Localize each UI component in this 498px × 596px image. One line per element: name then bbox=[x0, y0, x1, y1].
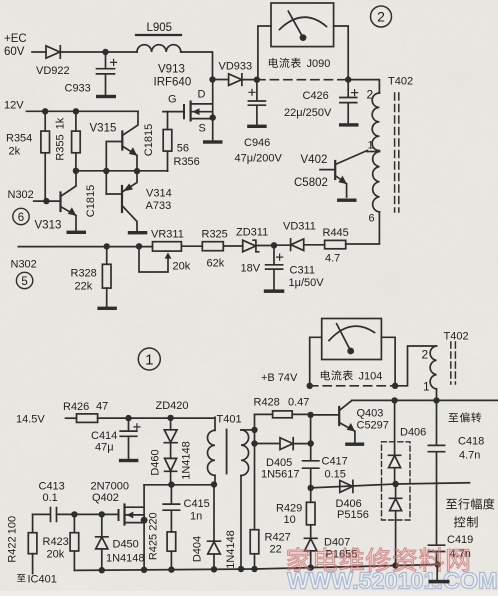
resistor R426 bbox=[77, 414, 98, 423]
svg-text:V314: V314 bbox=[146, 188, 172, 200]
svg-text:0.47: 0.47 bbox=[288, 397, 309, 409]
svg-text:47μ: 47μ bbox=[95, 442, 114, 454]
svg-text:IC401: IC401 bbox=[28, 574, 57, 586]
diode D406b bbox=[390, 484, 402, 566]
node +EC input bbox=[32, 51, 46, 53]
svg-text:D407: D407 bbox=[324, 537, 350, 549]
resistor R354 bbox=[41, 131, 50, 153]
svg-text:V315: V315 bbox=[90, 123, 117, 135]
svg-text:1N5617: 1N5617 bbox=[261, 469, 300, 481]
svg-text:1n: 1n bbox=[190, 511, 202, 523]
transformer T401 core bbox=[226, 430, 228, 474]
diode D404 bbox=[208, 485, 221, 570]
svg-text:1k: 1k bbox=[55, 117, 67, 129]
svg-text:C426: C426 bbox=[303, 90, 329, 102]
wire pin6 bbox=[346, 212, 380, 244]
potentiometer VR311 bbox=[182, 245, 203, 247]
svg-text:T402: T402 bbox=[388, 76, 413, 88]
circled 2 bbox=[371, 6, 392, 27]
dual diode D406 dashed box bbox=[382, 442, 411, 520]
zener ZD311 bbox=[256, 245, 274, 247]
svg-text:47: 47 bbox=[96, 401, 108, 413]
svg-text:56: 56 bbox=[177, 143, 189, 155]
resistor R355 bbox=[72, 131, 81, 153]
svg-text:R354: R354 bbox=[6, 133, 32, 145]
diode D406a bbox=[389, 400, 401, 484]
svg-text:C417: C417 bbox=[322, 456, 348, 468]
resistor R356 bbox=[167, 112, 169, 172]
ground bbox=[128, 231, 148, 234]
node to line amplitude control label bbox=[446, 498, 494, 509]
capacitor C417 bbox=[303, 444, 319, 488]
capacitor C426 bbox=[340, 80, 357, 124]
transformer T402 lower winding bbox=[430, 346, 436, 389]
svg-text:D405: D405 bbox=[266, 457, 292, 469]
svg-text:D406: D406 bbox=[400, 427, 426, 439]
svg-text:R429: R429 bbox=[276, 503, 302, 515]
svg-text:V913: V913 bbox=[158, 64, 185, 76]
svg-text:IRF640: IRF640 bbox=[154, 77, 192, 89]
wire bbox=[60, 51, 137, 53]
svg-text:C933: C933 bbox=[65, 83, 91, 95]
wire base bus bbox=[76, 170, 168, 172]
transistor V402 bbox=[320, 169, 335, 171]
diode D450 bbox=[99, 511, 105, 517]
transformer T402 lower core bbox=[451, 342, 456, 384]
ground C419 bar bbox=[429, 580, 450, 584]
ammeter J104 bbox=[322, 319, 382, 360]
svg-text:Q403: Q403 bbox=[357, 408, 384, 420]
capacitor C933 bbox=[97, 52, 115, 95]
svg-text:D450: D450 bbox=[113, 539, 139, 551]
ground bbox=[203, 140, 223, 143]
wire +B rail dashed bbox=[310, 385, 395, 387]
svg-text:1: 1 bbox=[145, 352, 153, 369]
svg-text:2k: 2k bbox=[9, 146, 21, 158]
wire R428 left leg bbox=[254, 414, 256, 529]
svg-text:A733: A733 bbox=[146, 200, 172, 212]
svg-text:C1815: C1815 bbox=[143, 124, 155, 156]
svg-text:N302: N302 bbox=[8, 189, 34, 201]
wire N302 pin5 rail bbox=[18, 246, 152, 248]
svg-text:2: 2 bbox=[367, 88, 374, 102]
svg-text:4.7n: 4.7n bbox=[459, 450, 480, 462]
svg-text:R356: R356 bbox=[174, 156, 200, 168]
wire drain bus bbox=[144, 484, 214, 486]
circled 1 bbox=[138, 348, 160, 370]
svg-text:WWW.520101.COM: WWW.520101.COM bbox=[287, 568, 498, 592]
transformer T401 primary bbox=[214, 417, 216, 430]
ground bbox=[345, 443, 364, 446]
diode VD311 bbox=[291, 239, 304, 251]
svg-text:20k: 20k bbox=[47, 549, 65, 561]
ammeter J104 label bbox=[321, 370, 353, 380]
svg-text:1N4148: 1N4148 bbox=[106, 553, 145, 565]
diode VD922 bbox=[46, 46, 60, 58]
node bbox=[209, 76, 215, 82]
svg-text:G: G bbox=[168, 94, 177, 106]
ammeter J090 bbox=[271, 3, 334, 47]
svg-text:ZD420: ZD420 bbox=[156, 400, 189, 412]
capacitor C311 bbox=[266, 245, 283, 289]
svg-text:ZD311: ZD311 bbox=[236, 227, 268, 239]
capacitor C414 bbox=[120, 418, 137, 459]
svg-text:R428: R428 bbox=[254, 397, 280, 409]
diode D460 bbox=[170, 443, 172, 459]
svg-text:C311: C311 bbox=[290, 265, 315, 277]
svg-text:J104: J104 bbox=[359, 371, 383, 383]
svg-text:22: 22 bbox=[270, 544, 282, 556]
svg-text:C5802: C5802 bbox=[294, 177, 328, 189]
svg-text:20k: 20k bbox=[173, 261, 191, 273]
node N302 pin5 circle bbox=[16, 272, 32, 288]
ground bbox=[339, 123, 359, 126]
svg-text:VD311: VD311 bbox=[283, 221, 316, 233]
svg-text:VD933: VD933 bbox=[219, 61, 253, 73]
watermark 家电维修资料网 bbox=[287, 547, 469, 571]
svg-text:1N4148: 1N4148 bbox=[225, 530, 237, 569]
core T402 bbox=[395, 93, 399, 212]
svg-text:L905: L905 bbox=[147, 22, 173, 34]
capacitor C946 bbox=[248, 80, 265, 125]
wire bbox=[181, 52, 213, 80]
svg-text:C946: C946 bbox=[244, 137, 270, 149]
svg-text:C419: C419 bbox=[447, 534, 473, 546]
svg-text:1μ/50V: 1μ/50V bbox=[289, 277, 325, 289]
node N302 pin6 circle bbox=[13, 208, 29, 224]
svg-text:P5156: P5156 bbox=[337, 509, 369, 521]
wire pin1 bbox=[367, 151, 379, 153]
svg-text:18V: 18V bbox=[241, 263, 261, 275]
resistor R423 bbox=[73, 514, 75, 570]
ground bbox=[264, 289, 285, 293]
svg-text:R427: R427 bbox=[265, 532, 291, 544]
ground bbox=[119, 459, 138, 462]
transformer T402 winding 1-6 bbox=[373, 152, 380, 212]
svg-text:2N7000: 2N7000 bbox=[91, 481, 130, 493]
capacitor C415 bbox=[163, 485, 179, 532]
wire to T402 pin2 bbox=[395, 346, 436, 386]
diode D407 bbox=[304, 525, 317, 568]
svg-text:2: 2 bbox=[422, 348, 429, 362]
svg-text:C413: C413 bbox=[39, 481, 65, 493]
svg-text:D460: D460 bbox=[150, 449, 162, 475]
svg-text:V402: V402 bbox=[301, 154, 328, 166]
transistor V315 bbox=[121, 132, 123, 150]
resistor R428 bbox=[273, 411, 293, 418]
ground bbox=[96, 95, 116, 98]
svg-text:4.7: 4.7 bbox=[325, 253, 340, 265]
svg-text:T401: T401 bbox=[217, 414, 242, 426]
svg-text:220: 220 bbox=[148, 512, 160, 530]
ground bbox=[97, 307, 117, 310]
wire collector bus to deflection bbox=[352, 399, 498, 401]
wire base leg bbox=[310, 415, 312, 444]
resistor R429 bbox=[310, 488, 312, 502]
wire modulator bus bbox=[311, 483, 470, 488]
svg-text:5: 5 bbox=[21, 276, 27, 288]
transistor Q403 bbox=[311, 414, 340, 416]
svg-text:R325: R325 bbox=[202, 229, 228, 241]
svg-text:J090: J090 bbox=[307, 58, 331, 70]
svg-text:C1815: C1815 bbox=[85, 185, 97, 217]
capacitor C418 bbox=[428, 400, 444, 545]
capacitor C413 bbox=[33, 508, 57, 522]
capacitor C419 bbox=[428, 545, 444, 580]
ground bbox=[247, 125, 267, 128]
resistor R425 bbox=[167, 532, 176, 551]
svg-text:12V: 12V bbox=[4, 100, 24, 112]
svg-text:+B 74V: +B 74V bbox=[261, 372, 298, 384]
svg-text:R445: R445 bbox=[323, 227, 349, 239]
svg-text:2: 2 bbox=[377, 9, 385, 25]
wire ground rail bbox=[74, 565, 437, 571]
svg-text:N302: N302 bbox=[11, 259, 37, 271]
svg-text:60V: 60V bbox=[4, 46, 25, 58]
mosfet V913 bbox=[163, 111, 184, 113]
svg-text:1: 1 bbox=[368, 140, 374, 152]
diode D406 bbox=[340, 480, 353, 492]
svg-text:100: 100 bbox=[7, 516, 19, 534]
zener ZD420 bbox=[170, 418, 172, 430]
resistor R328 bbox=[106, 246, 108, 306]
svg-text:R425: R425 bbox=[148, 534, 160, 560]
svg-text:C415: C415 bbox=[184, 498, 210, 510]
svg-text:VR311: VR311 bbox=[151, 229, 184, 241]
svg-text:22μ/250V: 22μ/250V bbox=[284, 107, 332, 119]
resistor R325 bbox=[223, 245, 242, 247]
svg-text:R426: R426 bbox=[63, 401, 89, 413]
svg-text:C418: C418 bbox=[458, 436, 484, 448]
wire N302 pin6 input bbox=[34, 200, 61, 202]
node A bbox=[102, 49, 108, 55]
svg-text:C414: C414 bbox=[91, 430, 117, 442]
wire 12V rail bbox=[27, 110, 139, 112]
svg-text:1N4148: 1N4148 bbox=[181, 441, 193, 480]
transformer T401 secondary bbox=[241, 429, 255, 431]
resistor R427 bbox=[250, 530, 259, 554]
svg-text:1: 1 bbox=[423, 380, 430, 394]
diode D405 bbox=[255, 438, 311, 450]
svg-text:VD922: VD922 bbox=[36, 65, 70, 77]
svg-text:+EC: +EC bbox=[4, 33, 27, 45]
ground bbox=[67, 231, 87, 234]
inductor L905 bbox=[137, 45, 181, 52]
svg-text:R423: R423 bbox=[43, 536, 69, 548]
transistor V313 bbox=[59, 193, 61, 212]
svg-text:Q402: Q402 bbox=[92, 492, 119, 504]
transistor V314 bbox=[106, 193, 122, 195]
svg-text:S: S bbox=[199, 123, 206, 135]
resistor R445 bbox=[325, 240, 346, 248]
svg-text:T402: T402 bbox=[444, 331, 469, 343]
wire 14.5V input bbox=[66, 417, 77, 419]
transformer T402 winding 2-1 bbox=[372, 93, 379, 151]
svg-text:0.15: 0.15 bbox=[325, 469, 346, 481]
svg-text:10: 10 bbox=[284, 514, 296, 526]
svg-text:D: D bbox=[198, 89, 206, 101]
diode VD933 bbox=[229, 74, 242, 86]
svg-text:62k: 62k bbox=[207, 258, 225, 270]
node to IC401 labels bbox=[17, 574, 25, 582]
svg-text:47μ/200V: 47μ/200V bbox=[235, 153, 283, 165]
svg-text:R328: R328 bbox=[71, 268, 97, 280]
node to deflection label bbox=[449, 412, 482, 422]
svg-text:V313: V313 bbox=[35, 220, 62, 232]
wire dashed meter shunt bbox=[257, 79, 348, 81]
svg-text:0.1: 0.1 bbox=[43, 492, 58, 504]
wire bbox=[213, 79, 229, 81]
ammeter J090 label bbox=[269, 58, 301, 68]
svg-text:R355: R355 bbox=[55, 134, 67, 160]
resistor R422 bbox=[32, 514, 34, 573]
ground bbox=[337, 199, 357, 202]
svg-text:14.5V: 14.5V bbox=[16, 414, 45, 426]
mosfet Q402 bbox=[57, 513, 119, 515]
svg-text:6: 6 bbox=[18, 212, 24, 224]
svg-text:22k: 22k bbox=[75, 281, 93, 293]
svg-text:R422: R422 bbox=[7, 536, 19, 562]
svg-text:D404: D404 bbox=[192, 536, 204, 562]
svg-text:C5297: C5297 bbox=[357, 420, 389, 432]
wire to T402 bbox=[348, 80, 379, 93]
svg-text:6: 6 bbox=[369, 213, 375, 225]
